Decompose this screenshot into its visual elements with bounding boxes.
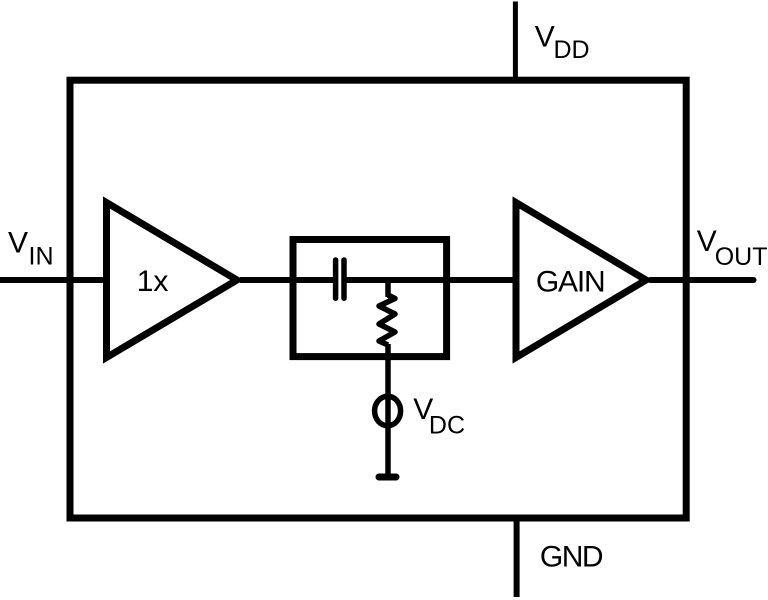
svg-text:1x: 1x: [137, 265, 169, 298]
svg-text:GND: GND: [540, 540, 603, 573]
svg-text:GAIN: GAIN: [536, 266, 605, 299]
svg-text:DC: DC: [429, 412, 465, 440]
svg-text:IN: IN: [29, 243, 54, 271]
svg-text:DD: DD: [554, 36, 590, 64]
svg-text:V: V: [535, 20, 555, 53]
svg-text:V: V: [8, 227, 28, 260]
svg-text:OUT: OUT: [715, 243, 768, 271]
